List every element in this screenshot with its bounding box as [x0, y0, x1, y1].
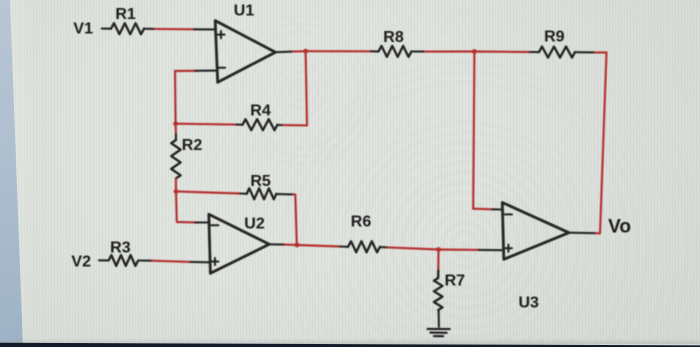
- node R4 left rail junction: [173, 121, 178, 126]
- svg-text:V2: V2: [71, 253, 91, 270]
- node U1 output junction: [303, 49, 308, 54]
- resistor R9: [539, 47, 575, 58]
- pin U2 output lead: [269, 243, 285, 245]
- wire node to U3 plus (red): [439, 248, 479, 251]
- wire left rail to R2 top: [175, 124, 177, 134]
- wire middle rail vertical (node to U3 minus): [473, 52, 474, 209]
- pin R9 left lead: [530, 51, 539, 53]
- pin U1 output lead: [275, 51, 293, 54]
- pin R9 right lead: [575, 51, 595, 53]
- pin U1 minus mark: [218, 67, 225, 69]
- svg-text:R3: R3: [110, 239, 131, 256]
- pin R6 left lead: [340, 245, 348, 247]
- resistor R1: [111, 23, 144, 34]
- lead V2 stub: [99, 259, 109, 261]
- resistor R6: [348, 241, 380, 252]
- pin R5 right lead: [277, 193, 294, 195]
- resistor R8: [379, 46, 412, 57]
- svg-text:U1: U1: [234, 2, 255, 19]
- wire R1 to U1 plus (red): [155, 28, 194, 31]
- wire right rail vertical (R9 to U3 output): [600, 53, 607, 234]
- wire R4 branch left (red): [176, 123, 237, 126]
- svg-text:R2: R2: [182, 137, 203, 154]
- pin U3 plus mark: [505, 245, 512, 252]
- wire R4 right to feedback rail corner: [284, 124, 308, 126]
- wire U1 minus to left rail: [175, 70, 194, 72]
- pin U1 minus input lead: [194, 70, 217, 72]
- pin R4 right lead: [278, 124, 284, 126]
- svg-text:Vo: Vo: [608, 217, 631, 238]
- lead V1 stub: [102, 28, 111, 30]
- wire node to R9 (red): [474, 50, 530, 53]
- wire R1 to U1 plus input (black lead): [144, 28, 155, 30]
- wire R9 to right rail corner: [595, 51, 607, 53]
- resistor R3: [109, 255, 138, 266]
- pin R6 right lead: [380, 246, 388, 248]
- wire U1 output to node: [293, 50, 306, 53]
- pin U1 plus input lead: [194, 28, 215, 30]
- pin U1 plus mark: [217, 31, 224, 38]
- wire R6 to R7 node (red): [388, 247, 439, 249]
- pin R5 left lead: [240, 192, 247, 194]
- wire U2 output to node: [285, 244, 297, 247]
- svg-text:R5: R5: [250, 173, 271, 190]
- op-amp U3: [502, 203, 569, 260]
- resistor R2: [171, 140, 180, 178]
- wire R3 to U2 plus (red): [152, 261, 191, 262]
- wire U3 output to right rail: [596, 232, 600, 234]
- pin U2 minus input lead: [195, 221, 210, 223]
- wire U2 output to R6 (red): [297, 245, 340, 247]
- wire U1 output to R8 (red): [306, 50, 371, 52]
- pin U3 minus input lead: [492, 208, 503, 210]
- resistor R4: [243, 119, 278, 130]
- svg-text:V1: V1: [73, 21, 93, 38]
- wire left rail upper (U1 minus down to R4 node): [174, 71, 177, 124]
- svg-text:R1: R1: [115, 6, 136, 23]
- node R6 R7 junction: [436, 247, 441, 252]
- op-amp U2: [209, 214, 269, 273]
- pin U2 plus input lead: [191, 261, 211, 263]
- node R8 R9 junction: [472, 49, 477, 54]
- pin R2 top lead: [175, 134, 177, 140]
- pin R8 left lead: [371, 50, 379, 52]
- pin R3 right lead: [138, 259, 152, 261]
- wire middle rail corner to U3 minus: [473, 208, 492, 211]
- svg-text:R7: R7: [445, 273, 466, 290]
- ground: [428, 329, 450, 336]
- node R5 left rail junction: [174, 189, 179, 194]
- node U2 output junction: [295, 243, 300, 248]
- resistor R7: [434, 271, 443, 310]
- svg-text:U3: U3: [518, 294, 539, 311]
- op-amp U1: [215, 21, 275, 83]
- pin U2 plus mark: [211, 258, 218, 265]
- svg-text:U2: U2: [244, 216, 265, 233]
- pin U3 minus mark: [505, 213, 512, 215]
- pin U3 plus input lead: [479, 249, 504, 251]
- svg-text:R9: R9: [544, 29, 565, 46]
- wire R5 branch left (red): [176, 191, 240, 193]
- pin U2 minus mark: [211, 224, 218, 226]
- wire R7 top (red): [437, 250, 439, 271]
- pin R8 right lead: [412, 50, 426, 52]
- wire R8 to middle node (red): [425, 50, 474, 52]
- pin U3 output lead: [569, 232, 596, 235]
- wire U1 feedback rail vertical: [306, 51, 307, 125]
- resistor R5: [247, 188, 277, 199]
- wire R5 right corner down to U2 output node: [293, 194, 296, 244]
- wire left rail lower (R5 node down to U2 minus): [176, 191, 195, 222]
- svg-text:R6: R6: [351, 214, 372, 231]
- pin R4 left lead: [237, 124, 243, 126]
- wire R2 bottom to R5 node: [175, 179, 177, 191]
- svg-text:R4: R4: [250, 103, 271, 120]
- pin R7 bottom lead: [438, 310, 440, 327]
- svg-text:R8: R8: [383, 29, 404, 46]
